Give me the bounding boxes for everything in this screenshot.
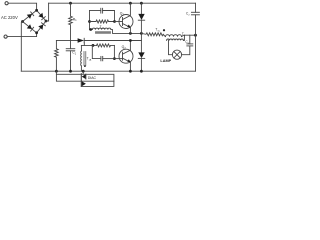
resistor (y45.4 row): [97, 44, 115, 47]
wire y45.4 row (T1A top / D1 tap / RC to Q2 base): [81, 44, 96, 46]
wire T1B right to emitter row: [111, 30, 141, 34]
diode D1: [78, 38, 84, 43]
transistor Q1: [119, 15, 133, 29]
wire corner down to Q2 base node: [113, 45, 115, 58]
resistor (x56 column): [55, 41, 59, 72]
wire: [8, 3, 36, 10]
node phasing dot T1A: [84, 65, 86, 67]
node R1 top: [69, 2, 72, 5]
wire diac loop rectangle: [56, 71, 114, 81]
capacitor C3: [187, 45, 193, 47]
wire X node down and cap row: [92, 45, 101, 58]
wire RC top branch: [90, 10, 101, 12]
wire stub D1 cathode down: [83, 43, 85, 46]
wire top rail: [49, 2, 196, 4]
node Q1 collector rail: [129, 2, 132, 5]
diode D2 (top of right column): [140, 3, 142, 14]
wire Q1 base lead: [115, 21, 123, 23]
node top vertex: [35, 9, 38, 12]
node X: [92, 44, 95, 47]
transformer T1A winding: [80, 51, 83, 66]
resistor (RC bottom): [90, 20, 115, 23]
node left vertex: [21, 20, 24, 23]
wire T2 upper right to C2 column: [182, 35, 196, 36]
transformer T1A core: [83, 52, 85, 66]
svg-text:DIAC: DIAC: [88, 76, 97, 80]
diode D3: [138, 52, 144, 58]
wire bridge right vertex up to top rail: [46, 3, 49, 21]
capacitor (Q2 base row): [100, 56, 102, 60]
node B (Q2 collector junction): [129, 39, 132, 42]
diode bridge lower-left: [27, 24, 32, 29]
wire junction row y40.5: [56, 40, 70, 42]
transformer T1B core: [96, 31, 111, 33]
capacitor C1: [70, 41, 72, 49]
diode bridge lower-right: [38, 25, 43, 30]
wire Q2 base lead: [114, 58, 122, 60]
svg-text:1A: 1A: [89, 59, 92, 62]
wire bottom rail: [21, 70, 195, 72]
transformer T1B winding: [92, 28, 111, 30]
node rail x56: [55, 70, 58, 73]
transformer T1C winding (zigzag): [141, 33, 165, 37]
diode bridge upper-right: [38, 13, 43, 18]
RC network left column: [90, 11, 93, 30]
wire bridge left vertex down to bottom rail: [21, 22, 22, 72]
node C2 column: [194, 34, 197, 37]
node Q2 base: [113, 57, 116, 60]
node D2 rail: [140, 2, 143, 5]
wire C2 column lower: [195, 35, 197, 71]
wire T1A bottom lead: [80, 66, 82, 71]
node rail D3: [140, 70, 143, 73]
svg-text:2: 2: [188, 14, 190, 16]
svg-text:AC 220V: AC 220V: [1, 15, 18, 20]
wire: [7, 33, 36, 37]
wire T2 secondary right corner: [183, 35, 184, 40]
svg-text:LAMP: LAMP: [160, 59, 171, 63]
wire diac stub from rail: [82, 71, 84, 74]
node bottom vertex: [35, 31, 38, 34]
svg-text:1: 1: [75, 19, 77, 22]
transistor Q2: [119, 49, 133, 63]
node RC bottom left: [88, 20, 91, 23]
node rail Q2 emitter: [129, 70, 132, 73]
svg-text:1: 1: [75, 53, 77, 56]
diac: [80, 74, 82, 87]
wire D1 cathode to Q2 collector and diode column: [84, 40, 141, 42]
node RC right: [113, 20, 116, 23]
node right vertex: [45, 20, 48, 23]
diode bridge upper-left: [27, 14, 32, 19]
wire lamp left lead to T2: [169, 40, 173, 54]
node A (Q1 emitter junction): [129, 32, 132, 35]
resistor R1: [69, 3, 73, 40]
node phasing dot T1C: [163, 29, 165, 31]
node rail C1: [69, 70, 72, 73]
transformer T2 secondary winding (lower row): [167, 39, 184, 40]
capacitor (RC top): [100, 8, 102, 13]
wire lamp right lead: [182, 46, 190, 55]
wire T1A top lead: [80, 45, 82, 51]
node T1B left: [89, 28, 92, 31]
node rail diac: [82, 70, 85, 73]
lamp: [172, 50, 181, 59]
capacitor C2: [195, 3, 197, 12]
terminal 2 (AC input bottom): [4, 35, 7, 38]
transformer T2 primary winding (upper row): [166, 35, 182, 37]
terminal 1 (AC input top): [5, 2, 8, 5]
bridge rectifier diamond: [23, 10, 47, 33]
node C (T1C junction): [140, 32, 143, 35]
wire diode column middle: [140, 33, 142, 52]
